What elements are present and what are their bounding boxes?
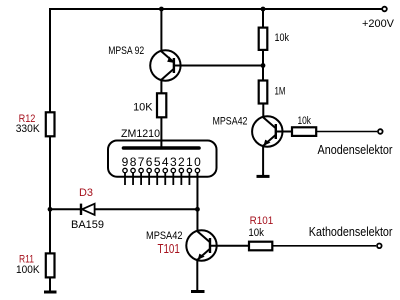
svg-text:BA159: BA159: [71, 219, 104, 231]
transistor T101 MPSA42: [186, 230, 216, 260]
node junction rail/Q1: [159, 7, 164, 12]
resistor 10k (anode base): [292, 127, 316, 136]
svg-text:MPSA42: MPSA42: [213, 116, 248, 128]
wire pin0 down to node: [196, 173, 198, 210]
terminal +200V: [382, 7, 387, 12]
wire rail to 10k: [262, 9, 264, 28]
resistor 1M: [259, 81, 268, 104]
svg-text:4: 4: [162, 155, 169, 169]
svg-text:R101: R101: [250, 215, 274, 227]
svg-text:3: 3: [170, 155, 177, 169]
svg-text:1M: 1M: [275, 86, 286, 98]
node junction base/chain: [261, 63, 266, 68]
svg-text:D3: D3: [79, 187, 93, 199]
terminal Anodenselektor: [378, 129, 383, 134]
wire 10k to terminal: [316, 131, 377, 133]
svg-text:6: 6: [146, 155, 153, 169]
svg-text:10k: 10k: [248, 227, 264, 239]
svg-text:0: 0: [194, 155, 201, 169]
wire T101 base to R101: [210, 245, 249, 247]
svg-text:2: 2: [178, 155, 185, 169]
svg-text:T101: T101: [158, 241, 180, 256]
wire left vertical bus: [49, 8, 51, 291]
wire Q2 emitter to ground: [262, 146, 264, 175]
nixie anode bar: [124, 146, 200, 150]
nixie digits: [122, 155, 201, 169]
ground T101: [191, 290, 205, 293]
svg-text:8: 8: [130, 155, 137, 169]
wire T101 emitter to ground: [196, 260, 198, 290]
svg-text:10k: 10k: [298, 115, 312, 127]
wire R101 to terminal: [272, 245, 376, 247]
svg-text:100K: 100K: [16, 264, 40, 276]
diode D3 BA159: [81, 204, 95, 215]
transistor Q1 MPSA92: [150, 50, 180, 80]
svg-text:7: 7: [138, 155, 145, 169]
node junction left bus / diode row: [48, 207, 53, 212]
nixie tube ZM1210 body: [108, 141, 217, 177]
svg-text:ZM1210: ZM1210: [121, 128, 160, 140]
svg-text:Kathodenselektor: Kathodenselektor: [309, 224, 393, 239]
wire Q1 emitter to rail: [160, 9, 162, 52]
terminal Kathodenselektor: [377, 244, 382, 249]
svg-text:Anodenselektor: Anodenselektor: [318, 142, 394, 157]
wire R 10K to nixie anode: [160, 117, 162, 148]
svg-text:5: 5: [154, 155, 161, 169]
wire node to T101 collector: [196, 209, 198, 231]
wire 1M to Q2 collector: [262, 104, 264, 118]
svg-text:10k: 10k: [275, 32, 290, 44]
nixie pin leads: [125, 173, 189, 185]
svg-text:330K: 330K: [16, 123, 41, 135]
svg-text:9: 9: [122, 155, 129, 169]
wire Q1 base to chain junction: [174, 65, 263, 67]
wire Q2 base to R 10k: [276, 131, 292, 133]
node junction rail/resistor chain: [261, 7, 266, 12]
wire Q1 collector to R 10K: [160, 80, 162, 94]
svg-text:10K: 10K: [133, 102, 153, 114]
resistor 10k (upper chain): [259, 28, 268, 50]
transistor Q2 MPSA42: [252, 116, 282, 146]
ground Q2: [257, 175, 270, 178]
resistor R12: [46, 112, 55, 136]
resistor 10K (collector): [157, 93, 166, 117]
svg-text:MPSA 92: MPSA 92: [108, 45, 144, 57]
svg-text:1: 1: [186, 155, 193, 169]
nixie pin circles: [123, 168, 200, 172]
resistor R11: [46, 253, 55, 277]
svg-text:+200V: +200V: [362, 18, 395, 30]
wire diode row: [50, 208, 197, 210]
node junction pin0 / T101 collector: [195, 207, 200, 212]
wire 10k to 1M: [262, 50, 264, 81]
resistor R101: [249, 242, 272, 251]
ground R11: [44, 291, 57, 294]
wire top rail +200V: [50, 8, 382, 10]
